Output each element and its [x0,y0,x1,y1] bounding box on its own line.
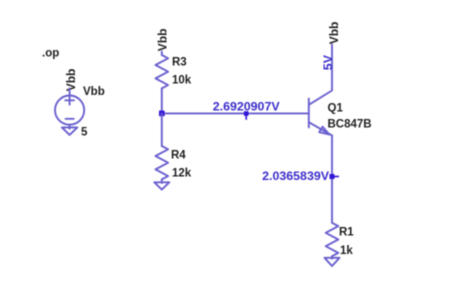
svg-text:10k: 10k [172,75,192,87]
svg-text:Vbb: Vbb [83,86,105,98]
svg-text:R1: R1 [339,227,354,239]
emitter node junction [330,174,340,179]
resistor R4 [156,146,169,179]
svg-text:1k: 1k [340,245,353,257]
wire (R4 to ground) [161,179,163,183]
wire (R3 top lead) [161,52,163,56]
svg-text:12k: 12k [172,168,192,180]
ground (under R1) [325,258,340,266]
wire (R1 to ground) [331,256,333,259]
svg-text:Vbb: Vbb [64,69,78,92]
wire (R3 to node A) [161,88,163,113]
svg-text:2.0365839V: 2.0365839V [262,169,330,183]
voltage source V1 [55,96,84,125]
svg-text:Q1: Q1 [328,103,344,115]
svg-text:BC847B: BC847B [328,119,372,131]
resistor R3 [156,55,169,88]
svg-text:.op: .op [42,48,59,60]
svg-text:Vbb: Vbb [327,22,341,45]
svg-text:5V: 5V [321,54,335,70]
ground (under R4) [154,182,169,189]
anchor marker (node A label) [244,111,249,120]
resistor R1 [326,223,339,256]
svg-text:Vbb: Vbb [155,29,169,52]
wire (V1 top stub) [69,89,71,96]
wire (node A to R4) [161,113,163,146]
wire (Vbb to Q1 collector) [309,45,332,105]
ground (under V1) [62,125,77,135]
svg-text:R4: R4 [171,150,186,162]
wire (node A to Q1 base) [162,112,309,114]
svg-text:5: 5 [81,127,88,139]
transistor Q1 [309,99,332,136]
svg-text:R3: R3 [172,57,187,69]
node A junction [159,111,165,117]
wire (Q1 emitter to R1) [331,136,333,223]
